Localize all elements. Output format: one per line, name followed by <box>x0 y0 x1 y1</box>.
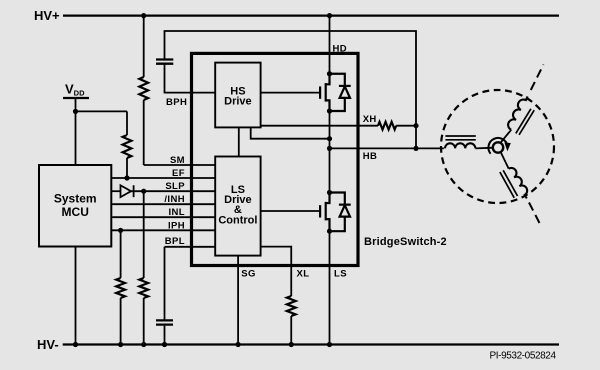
wire SG pin to HV- <box>237 256 239 345</box>
wire IPH pulldown upper <box>120 230 122 278</box>
svg-text:Drive: Drive <box>224 95 252 107</box>
wire VDD branch right <box>76 110 128 112</box>
wire Q1 gate lead <box>261 92 321 94</box>
wire phase A to hub <box>475 147 493 150</box>
resistor SM pull-up <box>139 77 148 100</box>
transistor Q2 low-side FET <box>320 193 329 232</box>
diode SLP <box>121 185 134 197</box>
wire SM line <box>144 164 216 166</box>
svg-text:EF: EF <box>172 168 185 179</box>
node HS ref junction <box>327 136 332 141</box>
wire EF line <box>111 177 215 179</box>
svg-text:XL: XL <box>297 269 310 280</box>
svg-text:HV-: HV- <box>37 337 59 352</box>
wire HS ref to HB <box>251 127 330 138</box>
capacitor BPH bootstrap <box>156 58 173 60</box>
wire half-bridge vertical <box>329 111 331 193</box>
transistor Q1 high-side FET <box>320 74 329 111</box>
node MCU-HV- junction <box>73 342 78 347</box>
svg-text:SM: SM <box>170 155 185 166</box>
diode Q2 body diode <box>330 193 351 232</box>
node SLP-HV- junction <box>141 342 146 347</box>
motor hub circle <box>493 142 503 152</box>
wire SLP line left of diode <box>111 190 120 192</box>
node HB at half-bridge <box>327 146 332 151</box>
diode Q1 body diode <box>330 74 351 111</box>
node Q2 source junction <box>327 229 332 234</box>
node HV+ junction at HD <box>327 13 332 18</box>
wire /INH line <box>111 203 215 205</box>
wire HB line <box>330 147 444 149</box>
wire XL from LS box <box>261 247 292 296</box>
wire resistor to EF line <box>126 158 128 178</box>
wire BPH capacitor to BPH pin <box>165 65 216 93</box>
wire HV+ to SM pull-up resistor <box>143 16 145 77</box>
wire VDD to MCU top <box>75 98 77 165</box>
wire HS-LS link <box>238 127 240 156</box>
node HV- rail <box>63 343 559 345</box>
svg-text:LS: LS <box>334 269 347 280</box>
node HV+ rail <box>63 15 559 17</box>
svg-text:HV+: HV+ <box>34 8 60 23</box>
HS Drive box <box>215 63 260 128</box>
wire VDD branch down to resistor <box>126 111 128 135</box>
node SG-HV- junction <box>236 342 241 347</box>
svg-text:MCU: MCU <box>62 205 89 219</box>
svg-text:Control: Control <box>218 214 257 226</box>
wire HB top net horizontal <box>165 31 417 126</box>
svg-text:PI-9532-052824: PI-9532-052824 <box>490 351 557 362</box>
node VDD junction <box>73 109 78 114</box>
node HV+ junction at SM pull-up <box>141 13 146 18</box>
System MCU box <box>39 165 111 247</box>
wire BPL down to capacitor <box>164 247 166 320</box>
svg-text:/INH: /INH <box>164 194 185 205</box>
node IPH junction <box>118 228 123 233</box>
op-amp U1 BridgeSwitch-2 outline <box>192 53 359 265</box>
wire HD <box>329 16 331 74</box>
wire phase B from hub <box>500 130 511 143</box>
inductor motor phase A coil <box>445 143 475 148</box>
wire phase C from hub <box>501 152 509 169</box>
svg-text:XH: XH <box>363 114 377 125</box>
capacitor BPL <box>156 319 173 321</box>
node BPL-HV- junction <box>162 342 167 347</box>
wire BPL line <box>165 246 216 248</box>
wire XL resistor to HV- <box>290 316 292 345</box>
resistor XL <box>287 296 296 316</box>
svg-text:HB: HB <box>363 151 378 162</box>
inductor motor phase B coil <box>508 96 527 129</box>
resistor IPH pulldown <box>116 278 125 298</box>
wire phase B dashed axis <box>531 65 544 91</box>
wire IPH line <box>111 229 215 231</box>
node HB junction <box>413 146 418 151</box>
svg-text:IPH: IPH <box>168 220 185 231</box>
wire BPL capacitor to HV- <box>164 326 166 345</box>
inductor motor phase C coil <box>509 168 527 198</box>
wire HB net down <box>415 126 417 149</box>
node IPH-HV- junction <box>118 342 123 347</box>
motor rotation arc <box>488 138 507 154</box>
wire SLP line right of diode <box>131 190 215 192</box>
wire LS pin to HV- <box>329 231 331 344</box>
node Q1 drain junction <box>327 71 332 76</box>
svg-text:BPH: BPH <box>166 97 187 108</box>
node Q1 source junction <box>327 108 332 113</box>
node EF junction <box>124 175 129 180</box>
motor rotation arrowhead <box>504 142 510 151</box>
svg-text:BPL: BPL <box>165 236 185 247</box>
core phase A laminations <box>445 136 475 140</box>
wire resistor to SM line <box>143 100 145 165</box>
wire IPH pulldown lower <box>120 298 122 345</box>
svg-text:HD: HD <box>333 44 348 55</box>
wire XH from HS Drive <box>261 125 378 127</box>
node XL-HV- junction <box>289 342 294 347</box>
node Q2 drain junction <box>327 190 332 195</box>
core phase C laminations <box>500 170 518 198</box>
node SLP junction <box>141 189 146 194</box>
node LS-HV- junction <box>327 342 332 347</box>
wire SLP pulldown upper <box>143 191 145 278</box>
wire Q2 gate lead <box>261 210 321 212</box>
supply VDD bar <box>63 97 89 99</box>
wire MCU bottom to HV- <box>75 247 77 345</box>
svg-text:BridgeSwitch-2: BridgeSwitch-2 <box>364 236 447 248</box>
wire SLP pulldown lower <box>143 298 145 345</box>
resistor SLP pulldown <box>139 278 148 298</box>
svg-text:System: System <box>54 192 97 206</box>
LS Drive and Control box <box>215 157 260 256</box>
wire phase C dashed axis <box>529 203 541 227</box>
svg-text:SG: SG <box>241 269 256 280</box>
svg-text:INL: INL <box>168 207 185 218</box>
resistor XH <box>378 122 396 130</box>
wire XH resistor to HB net <box>396 125 416 127</box>
core phase B laminations <box>516 109 534 135</box>
motor stator circle <box>441 90 554 203</box>
node XH-HB junction <box>413 123 418 128</box>
wire INL line <box>111 216 215 218</box>
svg-text:SLP: SLP <box>165 181 185 192</box>
resistor EF pull-up <box>123 135 132 158</box>
